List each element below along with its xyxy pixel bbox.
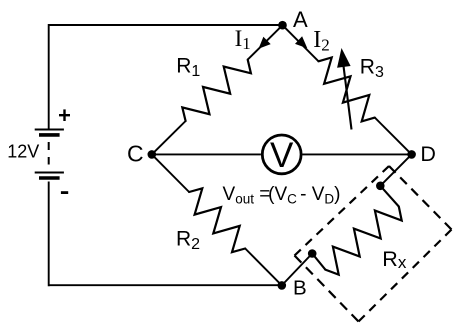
wire left rail lower xyxy=(48,182,50,287)
wire left rail upper xyxy=(48,24,50,130)
node A xyxy=(278,21,287,30)
node D xyxy=(407,150,416,159)
wire C to R2 xyxy=(152,154,189,192)
resistor R2 xyxy=(189,188,245,252)
battery minus sign xyxy=(61,191,68,194)
wire Rx node to B xyxy=(282,254,312,286)
R3 wiper arrow xyxy=(344,66,352,130)
wire voltmeter to D xyxy=(303,153,412,155)
resistor R1 xyxy=(182,60,251,121)
svg-text:A: A xyxy=(293,7,308,32)
wire bottom (battery - to node B) xyxy=(49,284,282,286)
node C xyxy=(148,150,157,159)
battery plus sign xyxy=(59,114,70,116)
node (Rx top terminal) xyxy=(376,182,385,191)
node (Rx bottom terminal) xyxy=(308,249,317,258)
battery BT1 12V xyxy=(35,129,64,131)
resistor R3 (variable) xyxy=(319,58,375,122)
svg-text:12V: 12V xyxy=(7,141,39,161)
svg-text:B: B xyxy=(293,276,307,299)
dashed box around Rx xyxy=(389,166,452,230)
wire R1 to C xyxy=(152,121,186,154)
node B xyxy=(278,281,287,290)
resistor Rx xyxy=(380,186,399,207)
arrow I1 current xyxy=(259,37,271,49)
wire A to R3 xyxy=(283,25,319,61)
svg-text:D: D xyxy=(420,142,436,166)
wire A to R1 xyxy=(248,25,283,59)
svg-text:V: V xyxy=(270,136,294,175)
arrow I2 current xyxy=(295,36,307,48)
wire R2 to B xyxy=(245,249,282,286)
wire D to Rx node xyxy=(380,154,411,185)
wire top (battery + to node A) xyxy=(49,24,283,26)
voltmeter U1 circle xyxy=(262,135,301,174)
wire C to voltmeter xyxy=(152,153,261,155)
svg-text:C: C xyxy=(127,141,144,167)
wire R3 to D xyxy=(375,118,412,155)
